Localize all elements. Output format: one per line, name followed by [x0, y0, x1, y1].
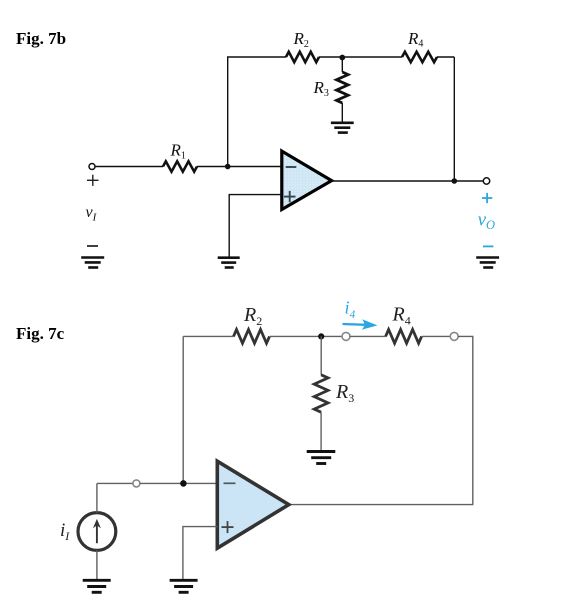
resistor R4: [402, 52, 437, 62]
svg-text:vI: vI: [86, 204, 98, 223]
svg-text:iI: iI: [60, 520, 70, 543]
op-amp U2: [217, 461, 288, 548]
ground (output port): [476, 258, 499, 268]
wire top rail left segment (7c): [183, 335, 233, 337]
ground (below current source): [83, 580, 111, 592]
op-amp U1 plus sign: [284, 191, 296, 202]
current source iI: [78, 513, 116, 551]
node D (junction dot R3 tap 7c): [318, 333, 324, 339]
wire rail right corner down: [289, 336, 473, 504]
ground (below R3): [331, 123, 354, 133]
wire R3 to ground (7c): [320, 412, 322, 450]
svg-text:R4: R4: [392, 304, 411, 328]
svg-text:vO: vO: [478, 210, 495, 232]
node E (junction dot input 7c): [180, 480, 187, 487]
op-amp U1: [282, 151, 332, 209]
ground (noninverting input): [218, 258, 240, 268]
minus sign (input port): [87, 245, 98, 247]
input terminal (open circle): [89, 164, 95, 170]
wire top rail right segment: [437, 56, 454, 58]
wire top rail middle segment: [319, 56, 402, 58]
resistor R3: [336, 72, 348, 103]
svg-text:Fig. 7c: Fig. 7c: [16, 324, 65, 343]
wire to input open circle: [97, 482, 133, 484]
wire left rail down to input node: [182, 336, 184, 483]
wire right rail down to output: [453, 57, 455, 181]
resistor R2 (7c): [234, 330, 270, 344]
resistor R2: [286, 52, 319, 62]
wire top rail left segment: [227, 56, 286, 58]
node B (junction dot R3 tap): [339, 55, 345, 61]
svg-text:R3: R3: [335, 381, 354, 405]
svg-text:R1: R1: [170, 141, 186, 162]
wire R3 to ground: [341, 103, 343, 122]
wire op-amp noninverting input (7c): [183, 527, 217, 579]
plus sign (output port, blue): [482, 193, 492, 203]
wire open circle to R4: [350, 335, 386, 337]
wire R4 to right open circle: [422, 335, 451, 337]
ground (input port): [81, 258, 104, 268]
ground (below R3, 7c): [307, 452, 336, 464]
ground (noninverting input 7c): [170, 580, 198, 592]
output terminal (open circle): [483, 178, 489, 184]
svg-text:R3: R3: [313, 78, 329, 99]
terminal (open circle left of R4): [342, 332, 350, 340]
resistor R4 (7c): [386, 330, 422, 344]
wire op-amp noninverting input: [229, 195, 282, 257]
wire node A up to top rail: [227, 57, 229, 167]
minus sign (output port, blue): [483, 245, 493, 247]
wire current source top up: [96, 483, 98, 512]
wire input terminal to R1: [95, 166, 163, 168]
svg-text:R2: R2: [293, 29, 309, 50]
terminal (open circle input 7c): [133, 480, 140, 487]
wire rail R2 to open circle: [270, 335, 343, 337]
node C (output junction dot): [452, 178, 458, 184]
plus sign (input port): [87, 175, 99, 186]
wire open circle to op-amp inverting input: [140, 482, 217, 484]
svg-text:i4: i4: [345, 298, 356, 322]
node A (junction dot): [225, 164, 231, 170]
resistor R3 (7c): [314, 375, 328, 412]
wire op-amp output: [332, 180, 484, 182]
wire current source bottom to ground: [96, 550, 98, 579]
op-amp U2 minus sign: [224, 482, 236, 484]
wire node B to R3: [341, 58, 343, 73]
resistor R1: [163, 161, 197, 171]
current source arrow: [93, 519, 101, 543]
svg-text:R2: R2: [243, 304, 262, 328]
wire node D down to R3 (7c): [320, 336, 322, 374]
op-amp U1 minus sign: [286, 166, 297, 168]
terminal (open circle right of R4): [450, 332, 458, 340]
current arrow i4 (blue): [343, 319, 378, 330]
svg-text:R4: R4: [407, 29, 423, 50]
wire R1 to op-amp inverting input: [197, 166, 282, 168]
op-amp U2 plus sign: [222, 521, 234, 533]
svg-text:Fig. 7b: Fig. 7b: [16, 29, 66, 48]
